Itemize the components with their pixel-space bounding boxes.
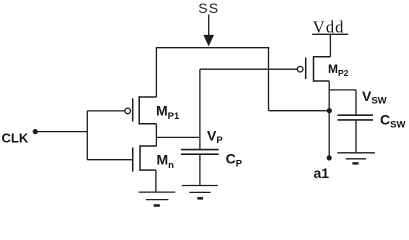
wire to VSW node xyxy=(269,110,330,112)
svg-text:MP2: MP2 xyxy=(328,62,349,78)
node VSW dot xyxy=(327,108,332,113)
wire MP2 gate horizontal xyxy=(200,68,298,70)
wire right drop xyxy=(268,48,270,111)
wire MP2 gate riser xyxy=(199,69,201,149)
svg-text:CLK: CLK xyxy=(2,131,29,146)
ground under CP xyxy=(182,186,218,199)
svg-text:VP: VP xyxy=(207,127,223,146)
arrowhead SS xyxy=(203,35,214,47)
wire CLK branch vertical xyxy=(86,111,88,160)
wire branch to CSW xyxy=(329,89,356,91)
svg-text:CP: CP xyxy=(226,151,243,170)
svg-text:SS: SS xyxy=(198,0,219,16)
svg-text:Mn: Mn xyxy=(157,152,175,171)
svg-text:a1: a1 xyxy=(314,165,330,181)
svg-text:CSW: CSW xyxy=(380,112,405,131)
svg-text:Vdd: Vdd xyxy=(313,17,345,36)
wire CP to ground xyxy=(199,154,201,185)
ground under Mn xyxy=(139,192,176,205)
wire MP1-Mn link xyxy=(155,124,157,146)
wire SS arrow stem xyxy=(208,15,210,39)
ground under CSW xyxy=(337,153,375,164)
svg-text:VSW: VSW xyxy=(362,88,387,107)
wire MP2 drain down xyxy=(328,81,330,158)
wire CSW to ground xyxy=(355,120,357,153)
wire Mn source xyxy=(155,170,157,192)
transistor MP2 xyxy=(297,56,330,82)
svg-text:MP1: MP1 xyxy=(156,103,180,122)
wire CLK xyxy=(36,131,87,133)
wire top rail xyxy=(156,47,269,49)
wire Vdd to MP2 xyxy=(329,34,331,57)
power Vdd underline xyxy=(312,33,348,35)
wire MP1 gate lead xyxy=(87,110,125,112)
wire VP xyxy=(156,136,200,138)
wire CSW top lead xyxy=(355,90,357,115)
node CLK dot xyxy=(33,129,38,134)
wire Mn gate lead xyxy=(87,159,132,161)
transistor MP1 xyxy=(125,96,157,124)
node a1 xyxy=(327,155,332,160)
capacitor CP xyxy=(181,150,219,155)
wire MP1 drain riser xyxy=(155,48,157,97)
transistor Mn xyxy=(133,145,157,171)
capacitor CSW xyxy=(338,115,374,120)
